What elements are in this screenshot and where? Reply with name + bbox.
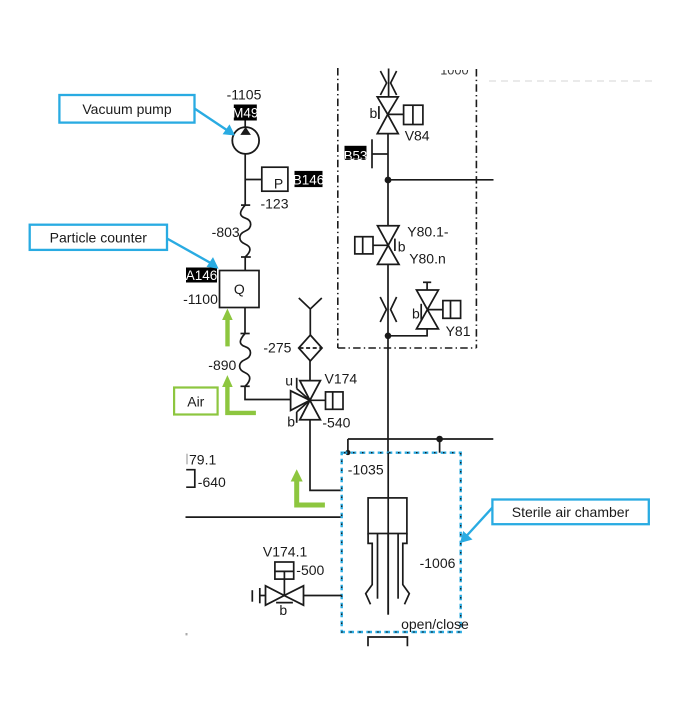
svg-text:-500: -500 [296, 562, 324, 578]
port symbol left [252, 588, 265, 603]
wire Y81 to junction [388, 329, 427, 336]
svg-text:-275: -275 [263, 339, 291, 355]
tag M49 [232, 105, 258, 121]
wire pump stem [244, 121, 246, 128]
wire V174.1 to chamber [304, 595, 342, 597]
svg-text:Y81: Y81 [446, 323, 471, 339]
svg-text:b: b [412, 306, 420, 322]
svg-text:Particle counter: Particle counter [50, 230, 148, 246]
actuator V174.1 [275, 562, 294, 596]
green L arrow at -890 [222, 375, 256, 415]
actuator Y80 [355, 237, 373, 254]
label 79.1 fragment [187, 451, 216, 467]
svg-text:u: u [285, 373, 293, 389]
Air callout box [174, 388, 218, 415]
wire pump to tee [244, 154, 246, 205]
callout Particle counter [30, 225, 219, 269]
wire junction to right [388, 179, 494, 181]
valve V174.1 [266, 586, 304, 605]
faint erased line top right [489, 80, 656, 82]
svg-text:M49: M49 [232, 106, 258, 121]
wire hose to Q box [244, 257, 246, 271]
junction node header [436, 436, 443, 443]
svg-text:-640: -640 [198, 474, 226, 490]
sterile air chamber box [342, 453, 461, 632]
clipped label 1000 [440, 63, 468, 78]
svg-text:open/close: open/close [401, 616, 469, 632]
callout Vacuum pump [59, 95, 235, 136]
svg-text:-1105: -1105 [227, 87, 262, 103]
port label b Y80 [395, 239, 406, 255]
green L arrow at chamber inlet [291, 469, 325, 507]
sterile coupling lower [380, 297, 396, 322]
svg-text:-123: -123 [260, 196, 288, 212]
tag B53 [344, 146, 367, 163]
actuator V174 [326, 392, 344, 409]
valve Y80 [363, 226, 399, 265]
svg-text:Y80.n: Y80.n [409, 251, 446, 267]
wire tee to P box [245, 179, 262, 181]
filter -275 [299, 335, 322, 361]
svg-text:V174: V174 [325, 370, 358, 386]
valve Y81 [417, 282, 451, 329]
svg-text:B146: B146 [293, 172, 325, 187]
svg-text:Q: Q [234, 281, 245, 297]
svg-text:Air: Air [187, 394, 204, 410]
tag A146 [186, 268, 218, 284]
junction node chamber corner [345, 450, 350, 455]
wire Y80 down [387, 264, 389, 452]
svg-text:-803: -803 [212, 224, 240, 240]
wire V174 down to chamber inlet [310, 420, 342, 491]
port label b Y81 [412, 304, 421, 322]
svg-text:V84: V84 [405, 127, 430, 143]
wire Q box to hose -890 [244, 308, 246, 334]
particle counter Q [220, 271, 260, 308]
green arrow into Q [222, 309, 233, 347]
junction node [385, 177, 392, 184]
flex hose -890 [240, 334, 251, 387]
sensor B53 probe [372, 139, 388, 168]
dash-dot enclosure bottom edge [338, 347, 477, 349]
junction node [385, 333, 392, 340]
3-way valve V174 [291, 378, 333, 423]
pressure sensor P [262, 167, 288, 191]
tag B146 [293, 171, 325, 187]
actuator V84 [404, 105, 423, 124]
callout Sterile air chamber [460, 500, 649, 544]
bracket [186, 470, 195, 488]
filling head [366, 453, 410, 615]
svg-text:-890: -890 [208, 357, 236, 373]
svg-text:-540: -540 [322, 414, 350, 430]
port label b V174.1 [276, 602, 293, 618]
svg-text:-1100: -1100 [183, 291, 218, 307]
svg-text:P: P [274, 176, 283, 192]
svg-text:Y80.1-: Y80.1- [407, 224, 449, 240]
wire header left drop [347, 439, 349, 453]
port label b V84 [370, 105, 379, 121]
sterile coupling top [380, 69, 396, 97]
dash-dot enclosure right edge [475, 69, 477, 348]
svg-text:-1006: -1006 [420, 555, 456, 571]
svg-text:-1035: -1035 [348, 462, 384, 478]
svg-text:79.1: 79.1 [189, 451, 216, 467]
wire filter to V174 [309, 361, 311, 381]
vacuum pump M49 [232, 127, 259, 154]
bottle neck below chamber [368, 637, 407, 646]
speck [186, 633, 188, 635]
valve V84 [377, 97, 413, 134]
svg-text:V174.1: V174.1 [263, 544, 308, 560]
svg-text:A146: A146 [186, 268, 218, 283]
wire header horizontal [348, 438, 493, 440]
svg-text:b: b [370, 105, 378, 121]
actuator Y81 [443, 301, 461, 319]
svg-text:b: b [279, 602, 287, 618]
wire header stub down [439, 439, 441, 453]
wire V84 to junction [387, 134, 389, 226]
flex hose -803 [240, 205, 251, 257]
dash-dot enclosure left edge [337, 68, 339, 348]
svg-text:b: b [398, 239, 406, 255]
vent to atmosphere [299, 298, 322, 335]
svg-text:Sterile air chamber: Sterile air chamber [512, 504, 630, 520]
svg-text:b: b [287, 414, 295, 430]
wire hose to elbow to V174 [245, 386, 291, 399]
svg-text:Vacuum pump: Vacuum pump [82, 101, 171, 117]
wire long horizontal [186, 516, 342, 518]
